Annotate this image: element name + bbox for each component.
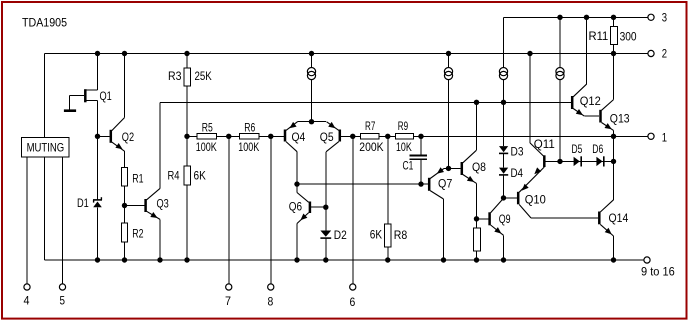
svg-text:200K: 200K xyxy=(359,140,383,154)
svg-text:9 to 16: 9 to 16 xyxy=(641,264,675,278)
svg-text:Q12: Q12 xyxy=(580,94,601,108)
svg-text:R7: R7 xyxy=(365,119,376,133)
svg-text:D5: D5 xyxy=(572,142,583,156)
svg-text:D4: D4 xyxy=(511,166,524,180)
svg-text:TDA1905: TDA1905 xyxy=(22,16,67,30)
svg-text:C1: C1 xyxy=(403,159,414,173)
svg-text:Q11: Q11 xyxy=(534,137,555,151)
svg-text:R8: R8 xyxy=(394,228,408,242)
svg-text:100K: 100K xyxy=(238,140,259,154)
svg-text:D2: D2 xyxy=(334,228,347,242)
svg-text:MUTING: MUTING xyxy=(27,141,65,155)
svg-text:8: 8 xyxy=(268,294,274,308)
svg-text:Q10: Q10 xyxy=(525,193,546,207)
svg-text:3: 3 xyxy=(662,11,668,25)
svg-text:Q13: Q13 xyxy=(610,112,630,126)
svg-text:Q8: Q8 xyxy=(472,160,486,174)
svg-text:Q1: Q1 xyxy=(100,89,113,103)
svg-text:Q3: Q3 xyxy=(157,196,170,210)
svg-text:R3: R3 xyxy=(168,69,182,83)
svg-text:D1: D1 xyxy=(77,196,89,210)
svg-text:Q5: Q5 xyxy=(320,130,334,144)
svg-text:D3: D3 xyxy=(511,144,524,158)
svg-text:Q6: Q6 xyxy=(289,200,303,214)
svg-text:R9: R9 xyxy=(398,119,409,133)
svg-text:6K: 6K xyxy=(194,169,206,183)
svg-text:R5: R5 xyxy=(202,120,213,134)
svg-text:D6: D6 xyxy=(592,142,603,156)
svg-text:2: 2 xyxy=(662,46,668,60)
svg-text:R2: R2 xyxy=(132,226,144,240)
svg-text:Q2: Q2 xyxy=(122,130,135,144)
svg-text:R11: R11 xyxy=(589,29,609,43)
svg-text:6K: 6K xyxy=(370,228,382,242)
svg-text:Q14: Q14 xyxy=(609,211,629,225)
svg-text:4: 4 xyxy=(24,294,30,308)
svg-text:Q9: Q9 xyxy=(499,212,511,226)
svg-text:25K: 25K xyxy=(195,69,212,83)
svg-text:5: 5 xyxy=(60,294,66,308)
svg-text:Q7: Q7 xyxy=(438,177,453,191)
svg-text:6: 6 xyxy=(350,295,356,309)
svg-text:1: 1 xyxy=(662,130,668,144)
svg-text:R1: R1 xyxy=(132,171,144,185)
svg-text:300: 300 xyxy=(620,30,637,44)
svg-text:R4: R4 xyxy=(168,169,180,183)
svg-text:100K: 100K xyxy=(196,140,217,154)
svg-text:Q4: Q4 xyxy=(292,130,306,144)
svg-text:10K: 10K xyxy=(396,140,412,154)
svg-text:R6: R6 xyxy=(244,120,255,134)
svg-text:7: 7 xyxy=(225,294,231,308)
